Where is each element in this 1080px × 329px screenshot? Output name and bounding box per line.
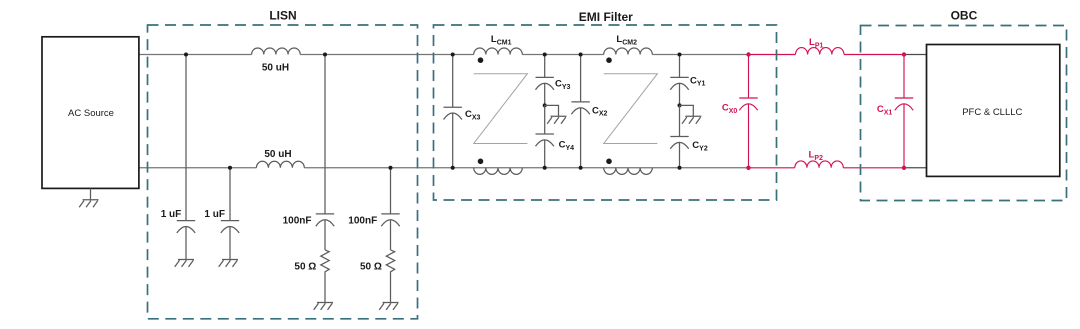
resistor 50ohm no1 <box>321 250 329 303</box>
inductor 50uH bottom <box>256 161 304 168</box>
ground (AC source) <box>79 188 98 207</box>
wire top red (CX0 node to CX1 node) <box>749 54 905 56</box>
capacitor 100nF no2 <box>381 168 399 250</box>
ground (1uF no2) <box>219 260 238 267</box>
OBC dashed box <box>861 26 1067 201</box>
inductor LP2 (red) <box>795 161 843 168</box>
junction node bottom wire 100nF <box>389 166 393 170</box>
ground (CY1-CY2 node) <box>680 105 702 123</box>
ground (1uF no1) <box>175 260 194 267</box>
junction node top wire 1uF <box>184 53 188 57</box>
LISN dashed box <box>148 25 418 319</box>
junction node bottom wire CX3 <box>451 166 455 170</box>
svg-text:OBC: OBC <box>951 9 978 23</box>
choke LCM1 core Z <box>474 74 528 144</box>
choke LCM2 core Z <box>604 74 658 144</box>
junction node bottom CX1 (red) <box>902 166 906 170</box>
choke LCM2 top polarity dot <box>606 57 612 63</box>
junction node top wire CX3 <box>451 53 455 57</box>
choke LCM1 top winding <box>474 48 523 55</box>
inductor LP1 (red) <box>796 48 844 55</box>
junction node bottom wire CY2 <box>678 166 682 170</box>
junction node top wire CX2 <box>579 53 583 57</box>
svg-text:50 Ω: 50 Ω <box>294 262 316 273</box>
junction node bottom wire 1uF <box>228 166 232 170</box>
svg-text:AC Source: AC Source <box>68 108 114 119</box>
resistor 50ohm no2 <box>386 250 394 303</box>
capacitor CY2 <box>670 105 688 167</box>
capacitor CX0 (red) <box>739 55 757 168</box>
svg-text:1 uF: 1 uF <box>204 209 225 220</box>
capacitor CY3 <box>536 55 554 106</box>
svg-text:1 uF: 1 uF <box>161 209 182 220</box>
svg-text:50 Ω: 50 Ω <box>360 262 382 273</box>
capacitor CX1 (red) <box>895 55 913 168</box>
capacitor 1uF no1 <box>177 55 195 260</box>
capacitor 1uF no2 <box>221 168 239 260</box>
junction node bottom CX0 (red) <box>746 166 750 170</box>
svg-text:EMI Filter: EMI Filter <box>579 10 633 24</box>
junction node top wire CY1 <box>678 53 682 57</box>
wire bottom red (CX0 node to CX1 node) <box>749 167 905 169</box>
AC Source box <box>42 37 139 189</box>
capacitor CY1 <box>670 55 688 106</box>
choke LCM1 bottom winding <box>474 168 523 175</box>
choke LCM2 bottom polarity dot <box>606 159 612 165</box>
EMI Filter dashed box <box>434 25 777 200</box>
choke LCM2 top winding <box>604 48 653 55</box>
ground (CY3-CY4 node) <box>545 105 567 123</box>
junction node CY1-CY2 <box>678 103 682 107</box>
svg-text:50 uH: 50 uH <box>262 62 289 73</box>
svg-text:50 uH: 50 uH <box>264 149 291 160</box>
svg-text:LISN: LISN <box>269 8 296 22</box>
svg-text:100nF: 100nF <box>348 216 377 227</box>
junction node CY3-CY4 <box>543 103 547 107</box>
capacitor 100nF no1 <box>316 55 334 250</box>
junction node top CX0 (red) <box>746 52 750 56</box>
choke LCM1 bottom polarity dot <box>478 159 484 165</box>
PFC & CLLLC box U1 <box>927 45 1060 177</box>
junction node top wire CY3 <box>543 53 547 57</box>
wire top dark (CX1 node to PFC box) <box>904 54 927 56</box>
inductor 50uH top <box>252 48 301 55</box>
choke LCM1 top polarity dot <box>478 57 484 63</box>
capacitor CX3 <box>444 55 462 168</box>
ground (50ohm no2) <box>379 303 398 310</box>
wire segment top wire between chokes <box>0 0 1 1</box>
junction node bottom wire CY4 <box>543 166 547 170</box>
junction node bottom wire CX2 <box>579 166 583 170</box>
wire bottom dark (CX1 node to PFC box) <box>904 167 927 169</box>
junction node top wire 100nF <box>323 53 327 57</box>
capacitor CY4 <box>536 105 554 167</box>
junction node top CX1 (red) <box>902 52 906 56</box>
svg-text:100nF: 100nF <box>283 216 312 227</box>
choke LCM2 bottom winding <box>604 168 653 175</box>
wire top (AC source to CX0 node) <box>139 54 749 56</box>
wire bottom (AC source to CX0 node) <box>139 167 749 169</box>
svg-text:PFC & CLLLC: PFC & CLLLC <box>962 107 1022 118</box>
capacitor CX2 <box>571 55 589 168</box>
ground (50ohm no1) <box>314 303 333 310</box>
